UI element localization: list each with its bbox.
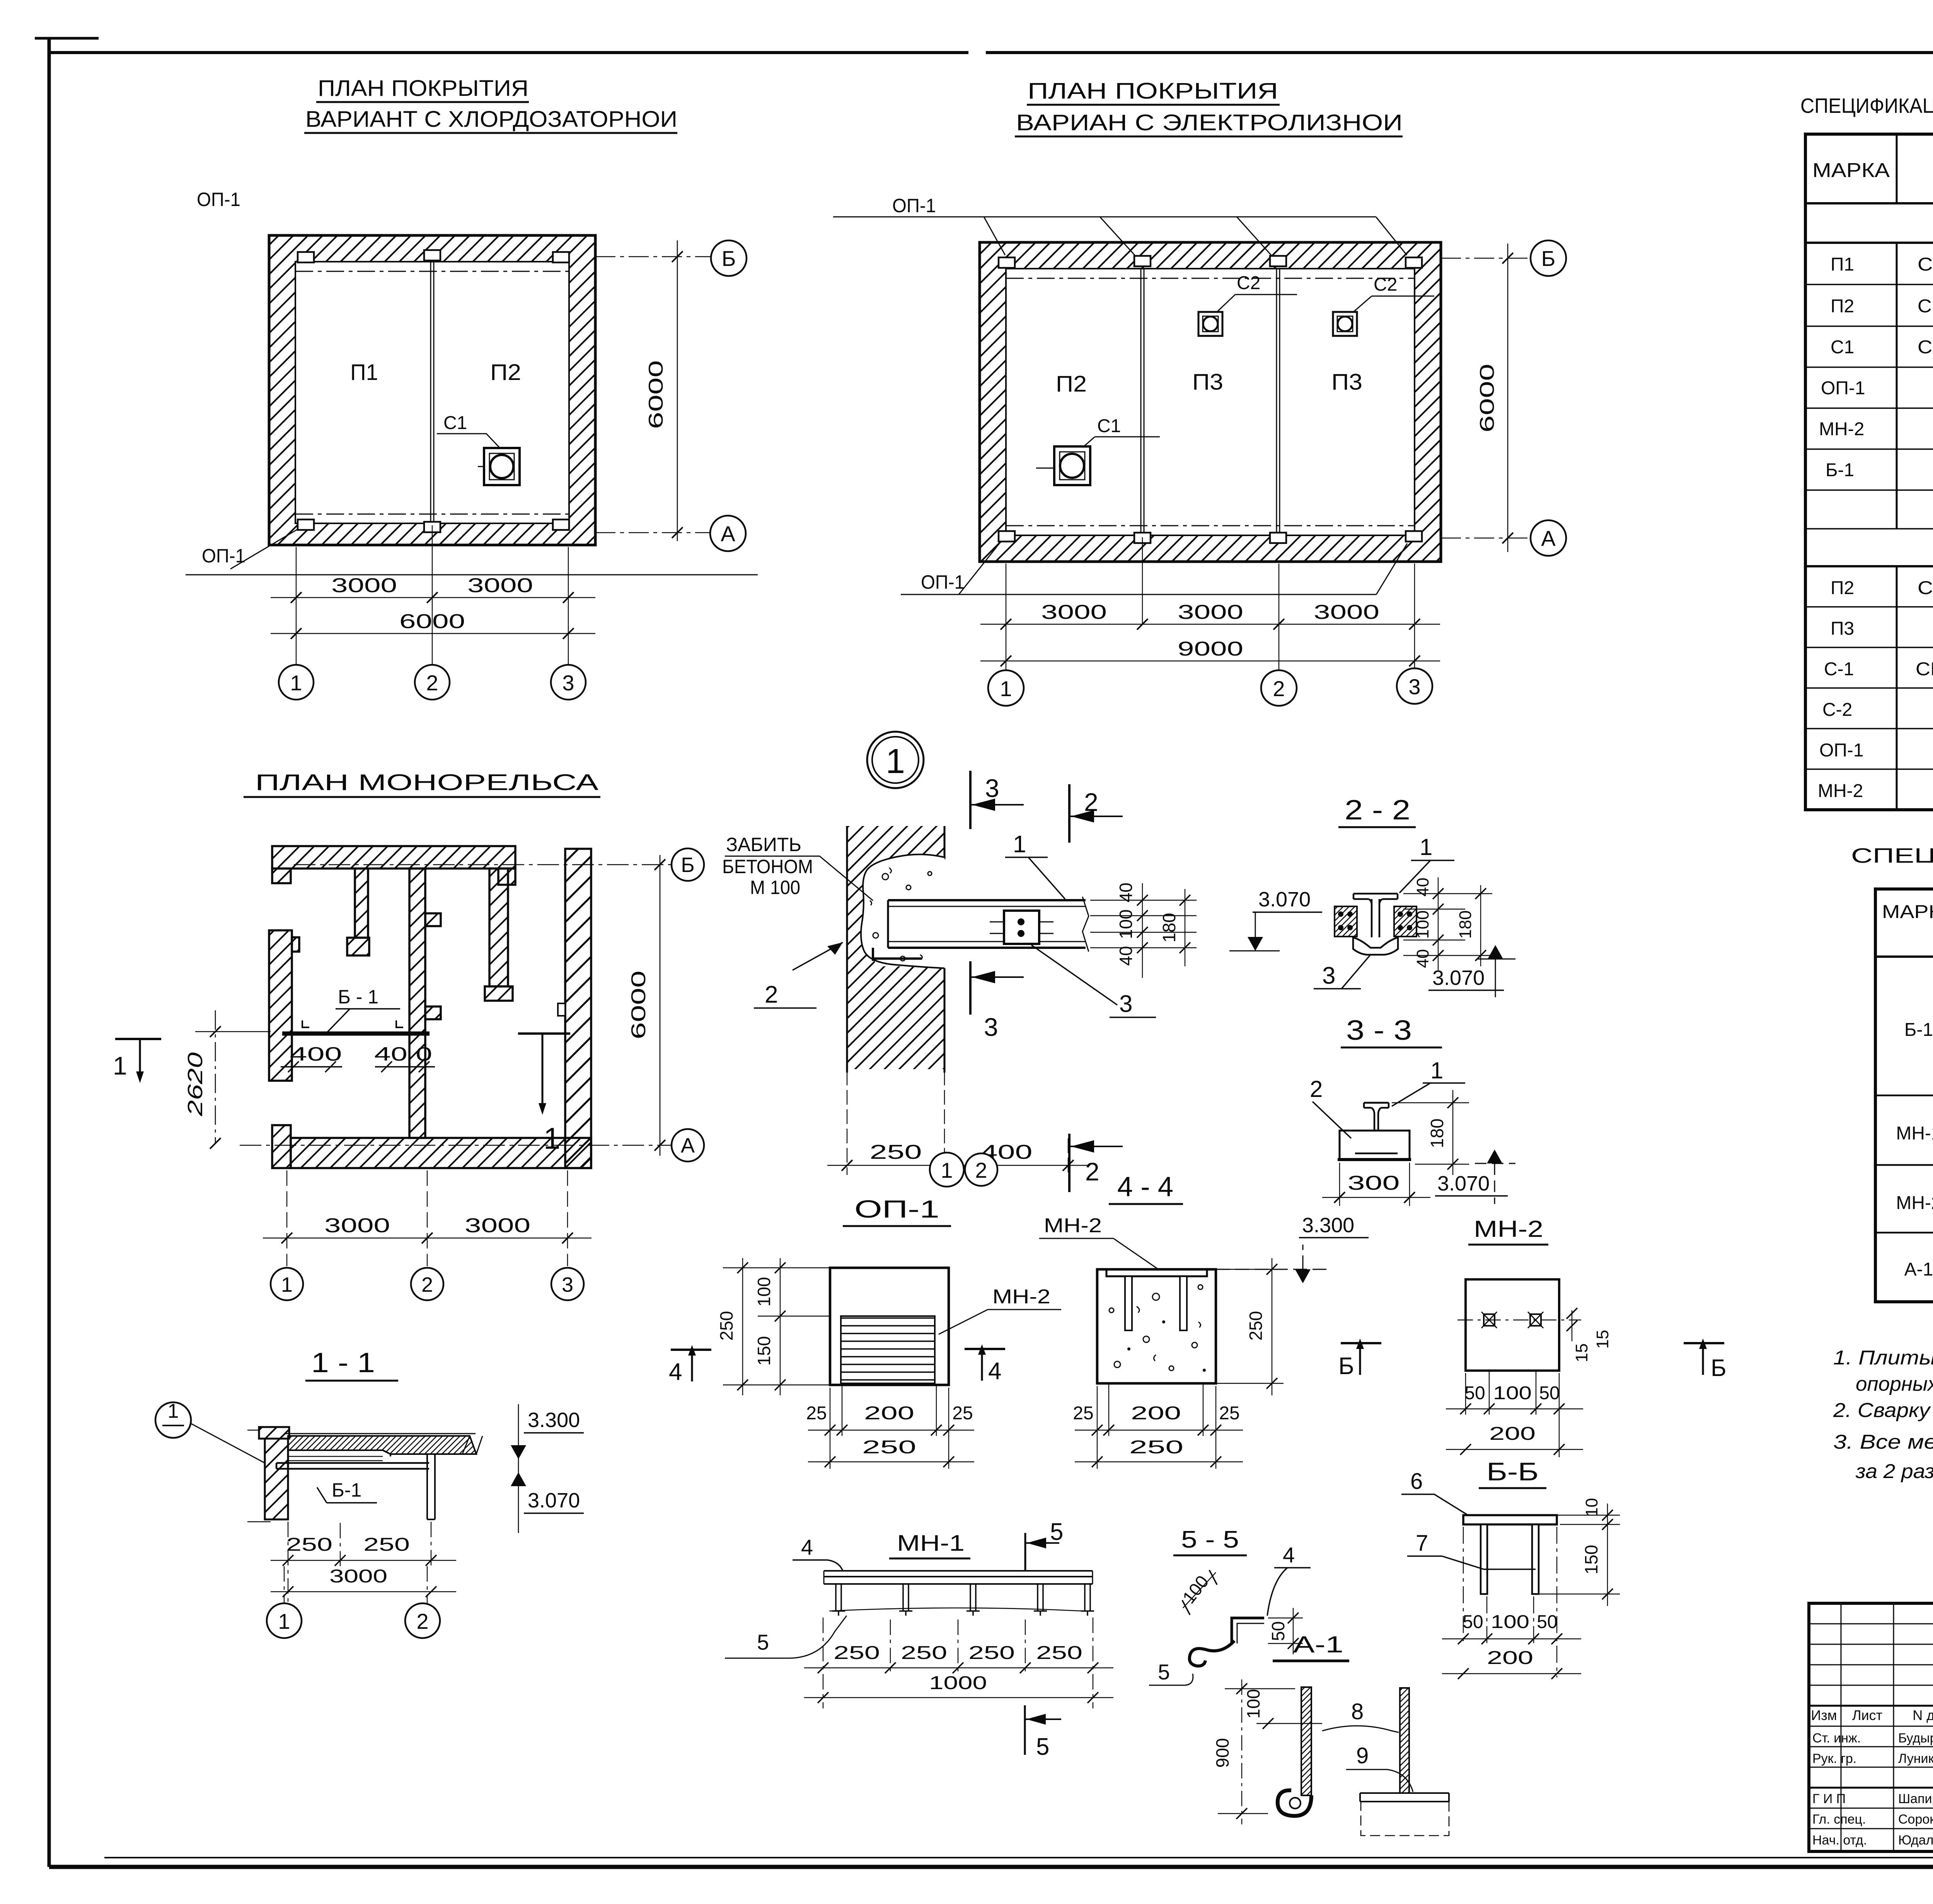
svg-text:3. Все металлические марки: 3. Все металлические марки окрасить крас…: [1833, 1431, 1933, 1453]
svg-text:3: 3: [985, 774, 999, 802]
page frame: [48, 39, 51, 1867]
end plate with bolts: [1004, 911, 1039, 944]
svg-text:С2: С2: [1374, 274, 1397, 295]
svg-text:Лист: Лист: [1852, 1707, 1882, 1723]
svg-text:180: 180: [1456, 910, 1475, 938]
glass С1 square: [1054, 446, 1090, 485]
svg-text:100: 100: [1116, 909, 1136, 939]
bottom axis extensions: [287, 1170, 568, 1266]
glass С1 square with circle: [484, 448, 520, 485]
slab with fine hatch: [288, 1436, 476, 1454]
svg-text:опорных подушек: опорных подушек: [1856, 1373, 1933, 1395]
svg-text:4: 4: [801, 1535, 813, 1559]
axis circle Б: [711, 240, 747, 276]
clamp angle left with bolts: [1335, 906, 1357, 937]
section mark Б left: [1341, 1342, 1381, 1344]
axis circles 1 2 3: [988, 670, 1024, 706]
svg-text:180: 180: [1427, 1119, 1447, 1148]
svg-text:50: 50: [1539, 1383, 1560, 1403]
svg-text:180: 180: [1159, 913, 1179, 943]
svg-text:П1: П1: [350, 360, 378, 385]
svg-text:40: 40: [1116, 946, 1136, 966]
svg-text:2: 2: [1273, 676, 1285, 701]
bottom dims 50 100 50 / 200: [1466, 1371, 1559, 1457]
svg-text:8: 8: [1351, 1699, 1364, 1724]
svg-text:П3: П3: [1331, 370, 1362, 395]
svg-text:А-1: А-1: [1904, 1259, 1933, 1280]
svg-text:2: 2: [975, 1158, 987, 1182]
svg-text:Нач. отд.: Нач. отд.: [1812, 1833, 1867, 1848]
svg-text:250: 250: [834, 1643, 880, 1663]
svg-text:4: 4: [1283, 1543, 1295, 1567]
svg-text:ОП-1: ОП-1: [1819, 740, 1864, 761]
svg-text:3000: 3000: [331, 574, 397, 597]
svg-text:3000: 3000: [329, 1566, 387, 1587]
section mark 4 right: [965, 1348, 1005, 1350]
svg-text:ЗАБИТЬ: ЗАБИТЬ: [726, 834, 801, 855]
rail I-beam on plate: [1355, 1103, 1398, 1153]
section mark 2 bottom: [1068, 1134, 1070, 1192]
svg-text:25: 25: [1073, 1403, 1093, 1424]
svg-text:СЕРИЯ 1.494-24. ВЫП. 1: СЕРИЯ 1.494-24. ВЫП. 1: [1918, 337, 1933, 358]
angle with anchor rod: [1232, 1618, 1264, 1643]
left dims 100 150 250: [723, 1268, 830, 1385]
slab edge dashed lines: [1006, 278, 1415, 526]
svg-text:N докум.: N докум.: [1913, 1707, 1933, 1723]
grid: [1875, 889, 1933, 1302]
svg-text:МН-2: МН-2: [1819, 419, 1864, 439]
wall on axis 2: [409, 869, 425, 1138]
svg-text:Гл. спец.: Гл. спец.: [1812, 1812, 1866, 1827]
svg-text:25: 25: [952, 1403, 973, 1424]
svg-text:БЕТОНОМ: БЕТОНОМ: [722, 856, 813, 877]
svg-text:А: А: [681, 1134, 695, 1157]
svg-text:1: 1: [168, 1400, 179, 1422]
svg-text:МН-2: МН-2: [1896, 1193, 1933, 1213]
bottom axis extension lines: [296, 525, 568, 664]
wall hatch: [847, 826, 944, 859]
svg-text:3000: 3000: [1314, 601, 1379, 623]
bearing pads ОП-1: [298, 250, 569, 532]
svg-text:МАРКА: МАРКА: [1882, 902, 1933, 922]
svg-text:3 - 3: 3 - 3: [1346, 1015, 1412, 1046]
svg-text:2 - 2: 2 - 2: [1345, 795, 1410, 826]
svg-text:1: 1: [544, 1121, 560, 1155]
svg-text:П1: П1: [1831, 254, 1854, 275]
monorail beam Б-1: [282, 1032, 430, 1036]
svg-text:1: 1: [113, 1051, 127, 1080]
svg-text:50: 50: [1537, 1612, 1557, 1632]
svg-text:СЕРИЯ 1.465-7 ВЫП. 1: СЕРИЯ 1.465-7 ВЫП. 1: [1918, 254, 1933, 275]
section mark 1 right: [518, 1032, 570, 1035]
svg-text:Изм: Изм: [1811, 1707, 1837, 1723]
svg-text:СПЕЦИФИКАЦИЯ СТАЛИ НА 1 Ш: СПЕЦИФИКАЦИЯ СТАЛИ НА 1 ШТУКУ КАЖДОЙ МАР…: [1851, 844, 1933, 867]
svg-text:Луникер: Луникер: [1898, 1751, 1933, 1766]
svg-text:Б-1: Б-1: [1904, 1020, 1933, 1040]
svg-text:100: 100: [1413, 910, 1432, 938]
axis circles 1 2 3: [279, 665, 314, 700]
svg-text:Шапиро: Шапиро: [1898, 1792, 1933, 1806]
section mark 2 top: [1068, 784, 1070, 843]
svg-text:3: 3: [562, 671, 574, 695]
node circle 1: [867, 732, 924, 788]
svg-text:200: 200: [864, 1403, 914, 1424]
svg-text:2620: 2620: [184, 1052, 207, 1117]
dim 2620: [195, 1031, 271, 1032]
svg-text:ВАРИАНТ С ХЛОРДОЗАТОРНОИ: ВАРИАНТ С ХЛОРДОЗАТОРНОИ: [305, 107, 677, 132]
svg-text:Юдалевич: Юдалевич: [1898, 1833, 1933, 1848]
rib of slab: [383, 1450, 435, 1519]
svg-text:15: 15: [1593, 1330, 1612, 1349]
top plate МН-2: [1106, 1269, 1207, 1276]
svg-text:П2: П2: [1831, 296, 1854, 317]
svg-text:50: 50: [1463, 1612, 1483, 1632]
svg-text:6000: 6000: [399, 610, 465, 633]
svg-text:МН-2: МН-2: [1818, 781, 1863, 801]
dims 15 15 right: [1572, 1310, 1572, 1341]
svg-text:250: 250: [901, 1643, 947, 1663]
svg-text:1. Плиты покрьпия привбр: 1. Плиты покрьпия привбрить к закладным …: [1833, 1347, 1933, 1369]
svg-text:ПЛАН ПОКРЫТИЯ: ПЛАН ПОКРЫТИЯ: [318, 76, 528, 101]
svg-text:9000: 9000: [1178, 638, 1243, 660]
svg-text:250: 250: [1036, 1643, 1082, 1663]
svg-text:3: 3: [1322, 962, 1335, 989]
bottom dims 25 200 25 / 250: [1097, 1383, 1216, 1469]
svg-text:7: 7: [1416, 1531, 1428, 1556]
section mark 3 top: [969, 771, 972, 829]
svg-text:МН-1: МН-1: [897, 1531, 965, 1556]
svg-text:Б-1: Б-1: [332, 1479, 361, 1501]
svg-text:3000: 3000: [1178, 601, 1243, 623]
svg-text:40: 40: [1116, 882, 1136, 902]
svg-text:А-1: А-1: [1293, 1632, 1343, 1657]
inner wall outline: [295, 262, 569, 523]
dim 180: [1392, 1103, 1469, 1164]
svg-text:МН-2: МН-2: [1044, 1214, 1102, 1237]
dims 100 / 900: [1225, 1689, 1322, 1723]
svg-text:П2: П2: [1831, 578, 1854, 598]
svg-text:3.070: 3.070: [1258, 888, 1311, 911]
svg-text:Б: Б: [1338, 1353, 1354, 1379]
anchor marks: [1484, 1314, 1495, 1326]
svg-text:М 100: М 100: [750, 877, 800, 898]
svg-text:3.300: 3.300: [528, 1408, 580, 1432]
svg-text:1 - 1: 1 - 1: [311, 1347, 375, 1378]
plate plan: [1466, 1279, 1559, 1371]
svg-text:5: 5: [1036, 1734, 1049, 1760]
svg-text:2: 2: [1084, 788, 1098, 816]
svg-text:ОП-1: ОП-1: [892, 195, 936, 216]
svg-text:250: 250: [286, 1534, 332, 1555]
svg-text:6000: 6000: [627, 971, 650, 1039]
diagonal rib line: [829, 1608, 1082, 1611]
svg-text:Б: Б: [681, 853, 694, 877]
embedded plate МН-2 (horizontal hatch): [841, 1316, 935, 1383]
svg-text:ОП-1: ОП-1: [197, 189, 240, 210]
svg-text:2: 2: [1310, 1076, 1323, 1102]
axis circle Б: [1531, 240, 1566, 276]
svg-text:25: 25: [1219, 1403, 1239, 1424]
svg-text:ПЛАН ПОКРЫТИЯ: ПЛАН ПОКРЫТИЯ: [1028, 78, 1278, 104]
svg-text:2: 2: [421, 1273, 433, 1296]
svg-text:П2: П2: [490, 360, 521, 385]
section mark 3 bottom: [969, 961, 972, 1015]
dim line 6000: [271, 633, 595, 634]
svg-text:3.070: 3.070: [1437, 1172, 1490, 1195]
svg-text:250: 250: [862, 1437, 916, 1458]
svg-text:150: 150: [754, 1336, 774, 1366]
wall: [259, 1427, 289, 1439]
inner wall outline: [1006, 269, 1415, 535]
svg-text:1: 1: [281, 1273, 293, 1296]
svg-text:1000: 1000: [929, 1673, 987, 1693]
svg-text:1: 1: [1420, 834, 1432, 860]
svg-text:3.300: 3.300: [1302, 1214, 1354, 1237]
pier A with foot: [355, 869, 368, 938]
svg-text:40 0: 40 0: [374, 1043, 432, 1065]
svg-text:3.070: 3.070: [1432, 966, 1485, 989]
svg-text:3: 3: [984, 1013, 998, 1041]
svg-text:Б: Б: [1541, 246, 1556, 271]
concrete texture dots: [1109, 1285, 1203, 1371]
hook bar pos.8: [1301, 1687, 1311, 1795]
axis circle А: [710, 516, 746, 551]
svg-text:Б-1: Б-1: [1826, 460, 1854, 480]
slab joint lines: [1141, 269, 1280, 535]
plate with legs: [1463, 1515, 1557, 1524]
svg-text:3000: 3000: [465, 1214, 530, 1237]
beam end corner marks: [302, 1020, 403, 1027]
bearing pads ОП-1: [999, 256, 1422, 543]
straight bar pos.9 with plate: [1400, 1688, 1409, 1793]
svg-text:С1: С1: [1097, 416, 1121, 436]
svg-text:С1: С1: [1831, 337, 1854, 358]
svg-text:2: 2: [1085, 1157, 1099, 1186]
svg-text:200: 200: [1131, 1403, 1181, 1424]
svg-text:Б: Б: [1711, 1355, 1727, 1381]
elevation 3.070: [1487, 1150, 1502, 1163]
svg-text:200: 200: [1487, 1648, 1533, 1668]
dims 40 100 40 right of beam: [1090, 900, 1197, 948]
dim 6000 right: [660, 855, 661, 1156]
svg-text:С1: С1: [443, 413, 467, 433]
svg-text:1: 1: [290, 671, 302, 695]
svg-text:С-2: С-2: [1822, 700, 1852, 720]
right dimension 6000: [1441, 258, 1530, 538]
axis line А: [240, 1145, 672, 1146]
svg-text:100: 100: [1243, 1689, 1263, 1719]
svg-text:ОП-1: ОП-1: [1821, 378, 1865, 399]
svg-text:СПЕЦИФИКАЦИЯ ЭЛЕМЕНТОВ К МАРКИ: СПЕЦИФИКАЦИЯ ЭЛЕМЕНТОВ К МАРКИРОВОЧНОИ С…: [1800, 94, 1933, 118]
svg-text:250: 250: [1246, 1311, 1266, 1341]
right dim 250: [1216, 1269, 1284, 1383]
beam Б-1 below slab: [276, 1463, 429, 1469]
elevation 3.070: [1488, 945, 1503, 959]
svg-text:3.070: 3.070: [528, 1489, 580, 1512]
right dimension 6000: [595, 257, 711, 533]
beam Б-1 embedded (side view): [888, 900, 1086, 948]
svg-text:С2: С2: [1237, 273, 1260, 293]
beam break mark right: [1082, 897, 1089, 952]
svg-text:1: 1: [1000, 676, 1012, 701]
dim 50: [1268, 1618, 1303, 1643]
svg-text:ОП-1: ОП-1: [854, 1195, 939, 1223]
bottom wall band: [291, 1138, 591, 1168]
left wall piece: [269, 930, 292, 1081]
svg-text:ОП-1: ОП-1: [921, 571, 965, 593]
svg-text:МН-2: МН-2: [1474, 1216, 1543, 1242]
svg-text:5: 5: [1158, 1660, 1170, 1684]
angle elevation: [824, 1571, 1093, 1584]
axis circle Б: [672, 848, 704, 881]
svg-text:4: 4: [669, 1359, 682, 1385]
svg-text:СЕРИЯ 1.465-7 ВЫП. 5: СЕРИЯ 1.465-7 ВЫП. 5: [1918, 578, 1933, 598]
dim line 3000+3000: [271, 597, 595, 598]
svg-text:4 - 4: 4 - 4: [1117, 1172, 1173, 1202]
svg-text:10: 10: [1582, 1498, 1601, 1517]
svg-text:25: 25: [806, 1403, 827, 1424]
axis circle А: [1531, 520, 1566, 556]
dims 250 400 below node: [847, 1071, 1068, 1175]
svg-text:МН-2: МН-2: [992, 1286, 1050, 1308]
I-beam with clamp angles: [1353, 894, 1398, 937]
svg-text:9: 9: [1356, 1743, 1369, 1768]
svg-text:П3: П3: [1831, 618, 1854, 639]
dim line 9000: [980, 661, 1440, 662]
svg-text:Б: Б: [722, 246, 736, 271]
bottom axis extension lines: [1006, 537, 1415, 670]
svg-text:250: 250: [870, 1141, 922, 1163]
dims 40 100 40 180: [1403, 894, 1492, 955]
svg-text:1: 1: [1430, 1058, 1443, 1083]
svg-text:900: 900: [1212, 1738, 1232, 1768]
svg-text:2: 2: [765, 981, 778, 1008]
svg-text:300: 300: [1348, 1172, 1400, 1194]
axis line Б: [294, 864, 672, 865]
svg-text:А: А: [721, 521, 735, 546]
svg-text:15: 15: [1572, 1344, 1591, 1362]
concrete pocket (Забить бетоном): [861, 854, 944, 968]
angle piece pos.3 under beam: [873, 948, 922, 961]
svg-text:Г И П: Г И П: [1812, 1792, 1846, 1806]
glass С2 squares: [1198, 312, 1357, 336]
svg-text:Рук. гр.: Рук. гр.: [1812, 1751, 1856, 1766]
bottom dims 25 200 25 / 250: [830, 1385, 949, 1469]
section mark 1 left: [115, 1038, 161, 1040]
svg-text:3: 3: [1119, 991, 1132, 1017]
dim 300: [1340, 1163, 1410, 1206]
svg-text:ПЛАН МОНОРЕЛЬСА: ПЛАН МОНОРЕЛЬСА: [255, 770, 598, 795]
svg-text:А: А: [1541, 526, 1556, 550]
svg-text:250: 250: [716, 1311, 736, 1341]
svg-text:МАРКА: МАРКА: [1812, 159, 1890, 182]
svg-text:250: 250: [1129, 1437, 1183, 1458]
svg-text:2: 2: [426, 671, 438, 695]
svg-text:МН-1: МН-1: [1896, 1123, 1933, 1144]
svg-text:40: 40: [1413, 878, 1432, 897]
slab edge dashed lines: [295, 271, 569, 514]
svg-text:3000: 3000: [1041, 601, 1107, 623]
section mark 5 bottom: [1024, 1705, 1026, 1755]
clamp angle right with bolts: [1394, 906, 1417, 937]
section mark 4 left: [671, 1349, 711, 1351]
svg-text:Б - 1: Б - 1: [338, 986, 378, 1008]
dims 250 x4 and 1000: [823, 1618, 1093, 1708]
slab joint lines axis 2: [431, 262, 434, 523]
axis circles 1 2 3: [271, 1268, 303, 1300]
dim line 3000 x3: [980, 624, 1440, 625]
svg-text:6000: 6000: [645, 360, 667, 429]
svg-text:3000: 3000: [324, 1214, 390, 1237]
wall hatch: [980, 242, 1441, 562]
bottom dims 250 250 / 3000: [288, 1522, 431, 1604]
svg-text:Ст. инж.: Ст. инж.: [1812, 1731, 1861, 1746]
svg-text:5: 5: [757, 1630, 769, 1654]
svg-text:200: 200: [1489, 1424, 1536, 1444]
svg-text:6: 6: [1410, 1469, 1423, 1494]
axis circles 1 2: [284, 1566, 427, 1603]
svg-text:6000: 6000: [1476, 364, 1498, 433]
dim 3000 3000: [263, 1238, 591, 1239]
svg-text:С-1: С-1: [1824, 659, 1854, 680]
svg-text:1: 1: [278, 1609, 290, 1633]
svg-text:СЕРИЯ 1.465-7 ВЫП.1 и 1: СЕРИЯ 1.465-7 ВЫП.1 и 1: [1918, 296, 1933, 317]
top wall band: [269, 846, 591, 1168]
svg-text:Будырь: Будырь: [1898, 1731, 1933, 1746]
right wall: [565, 849, 591, 1168]
svg-text:за 2 раза.: за 2 раза.: [1855, 1460, 1933, 1483]
svg-text:1: 1: [941, 1158, 953, 1182]
outer wall outline: [980, 242, 1441, 562]
svg-text:40: 40: [1413, 949, 1432, 968]
svg-text:150: 150: [1581, 1545, 1601, 1575]
svg-text:400: 400: [290, 1043, 342, 1065]
wall faces: [847, 826, 944, 1073]
svg-text:Б-Б: Б-Б: [1486, 1457, 1539, 1486]
axis circle А: [672, 1129, 704, 1161]
anchor tees: [832, 1584, 1094, 1616]
svg-text:СЕРИЯ 1.494-24 ВЫП. 1: СЕРИЯ 1.494-24 ВЫП. 1: [1916, 659, 1933, 680]
svg-text:ВАРИАН С ЭЛЕКТРОЛИЗНОИ: ВАРИАН С ЭЛЕКТРОЛИЗНОИ: [1016, 110, 1403, 135]
anchors: [1125, 1276, 1132, 1330]
svg-text:250: 250: [363, 1534, 410, 1555]
bottom dims 50 100 50 / 200: [1463, 1527, 1557, 1677]
svg-text:50: 50: [1268, 1621, 1288, 1641]
wall hatch: [269, 235, 595, 545]
svg-text:100: 100: [1493, 1383, 1532, 1403]
svg-text:5 - 5: 5 - 5: [1181, 1526, 1239, 1553]
svg-text:Сорокин: Сорокин: [1898, 1812, 1933, 1827]
svg-text:1: 1: [1013, 831, 1026, 858]
svg-text:3: 3: [562, 1273, 573, 1296]
svg-text:100: 100: [1491, 1612, 1529, 1632]
svg-text:3000: 3000: [467, 574, 533, 597]
svg-text:П2: П2: [1056, 371, 1087, 397]
table grid: [1805, 134, 1933, 810]
svg-text:50: 50: [1464, 1383, 1485, 1403]
svg-text:5: 5: [1050, 1519, 1063, 1545]
svg-text:2. Сварку производить элект: 2. Сварку производить электродами типа Э…: [1833, 1399, 1933, 1422]
pad body: [830, 1268, 949, 1385]
section mark Б right: [1684, 1342, 1724, 1344]
axis circles 1 2 below: [930, 1153, 964, 1187]
svg-text:3: 3: [1408, 674, 1420, 699]
svg-text:2: 2: [416, 1609, 428, 1633]
svg-text:4: 4: [988, 1358, 1001, 1385]
svg-text:1: 1: [886, 742, 905, 781]
svg-text:100: 100: [754, 1277, 774, 1307]
outer wall outline: [269, 235, 595, 545]
